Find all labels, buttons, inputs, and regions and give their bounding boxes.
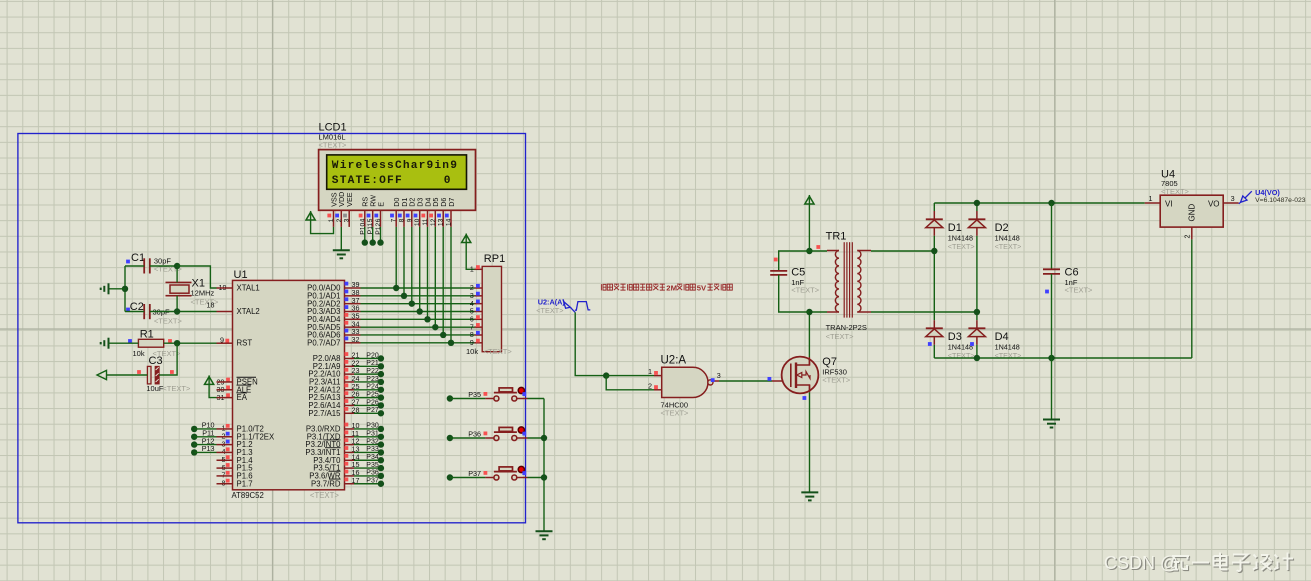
voltage probe U4(VO)	[1239, 191, 1252, 204]
logic square pin 32	[345, 337, 349, 341]
wire power to EA	[209, 384, 216, 398]
wire button ground bus	[543, 399, 545, 532]
wire net P33	[354, 451, 381, 453]
wire end dot net P31	[378, 434, 384, 440]
D4 cathode pin stub	[976, 320, 978, 328]
svg-text:9: 9	[470, 340, 474, 347]
D3 value 1N4148	[948, 342, 973, 351]
wire P0.5 row to RP1	[361, 326, 475, 328]
U1 pin name P1.7	[237, 479, 253, 488]
U1 pin name RST	[237, 338, 253, 347]
net label P11 at LCD pin 5	[367, 222, 374, 234]
LCD pin logic state square E	[374, 214, 378, 218]
wire end dot net P12	[191, 441, 197, 447]
pin stub P1.0	[217, 428, 233, 430]
U1 reference label	[234, 269, 248, 281]
U4 value 7805	[1161, 179, 1178, 188]
logic square pin 30	[226, 385, 230, 389]
logic square pin 14	[345, 454, 349, 458]
pin stub P2.4	[345, 389, 355, 391]
power terminal above RP1	[462, 234, 471, 243]
U1 pin name P1.2	[237, 440, 253, 449]
pin stub P0.3	[345, 310, 361, 312]
U1 pin name P2.5/A13	[308, 393, 340, 402]
LCD pin stub RW	[372, 210, 374, 227]
LCD pin stub D7	[450, 210, 452, 227]
pin stub P3.6	[345, 475, 355, 477]
diode D2 1N4148	[968, 219, 985, 227]
logic square pin 1	[226, 424, 230, 428]
wire C5 bottom	[779, 275, 810, 312]
crystal X1	[166, 282, 192, 295]
junction P37/bus	[541, 474, 547, 480]
svg-text:10: 10	[414, 218, 421, 226]
logic square pin 25	[345, 383, 349, 387]
pin stub P0.2	[345, 303, 361, 305]
wire P0.2 row to RP1	[361, 303, 475, 305]
logic square at P36	[484, 432, 488, 436]
D2 cathode pin stub	[976, 211, 978, 219]
LCD pin logic state square RS	[359, 214, 363, 218]
svg-text:<TEXT>: <TEXT>	[162, 384, 191, 393]
svg-text:3: 3	[344, 218, 351, 222]
D2 reference label	[995, 222, 1009, 234]
logic square pin 11	[345, 430, 349, 434]
LCD pin name D5	[431, 198, 440, 207]
svg-text:9: 9	[406, 218, 413, 222]
pin number 19 XTAL1	[219, 283, 227, 292]
pin number 4	[222, 447, 226, 456]
wire net P36	[354, 475, 381, 477]
LCD pin number 11	[422, 218, 429, 225]
RP1 pin number 3	[470, 293, 474, 300]
wire power to RP1 pin1	[466, 242, 474, 269]
pin number 3	[222, 439, 226, 448]
P36 right pin stub	[517, 437, 528, 439]
pin number 30	[217, 385, 225, 394]
wire end dot net P34	[378, 457, 384, 463]
U1 pin name P1.1/T2EX	[237, 432, 276, 441]
wire C5 top	[779, 251, 810, 271]
pin number 35	[352, 311, 360, 320]
wire net P24	[354, 389, 381, 391]
LCD pin name D7	[447, 198, 456, 207]
LCD pin logic state square VSS	[327, 214, 331, 218]
pin number 39	[352, 280, 360, 289]
LCD pin logic state square VDD	[335, 214, 339, 218]
LCD pin logic state square D4	[421, 214, 425, 218]
svg-text:1N4148: 1N4148	[948, 342, 973, 351]
svg-text:10k: 10k	[133, 349, 145, 358]
svg-text:3: 3	[717, 371, 721, 380]
wire LCD D4 down to P0.4	[427, 227, 429, 319]
svg-text:WirelessChar9in9: WirelessChar9in9	[332, 160, 458, 172]
D2 property text	[995, 242, 1022, 251]
logic square pin 33	[345, 329, 349, 333]
wire TR1 primary to Q7 drain	[808, 312, 810, 357]
wire D2 anode / AC2 column	[976, 236, 978, 320]
wire TR1 secondary top to bridge	[871, 250, 934, 252]
pin stub P1.2	[217, 444, 233, 446]
LCD pin number 13	[438, 218, 445, 226]
RP1 logic square pin 9	[476, 339, 480, 343]
net label P35	[468, 390, 481, 399]
wire LCD D6 down to P0.6	[442, 227, 444, 335]
LCD pin stub VEE	[348, 210, 350, 227]
wire end dot net P30	[378, 426, 384, 432]
logic square pin 10	[345, 423, 349, 427]
NAND gate U2:A body 74HC00	[662, 367, 713, 397]
wire R1 to RST	[164, 342, 217, 344]
svg-text:11: 11	[422, 218, 429, 225]
push button P36	[494, 427, 525, 441]
transformer TR1 TRAN-2P2S	[835, 242, 861, 317]
logic square pin 2	[226, 432, 230, 436]
svg-text:<TEXT>: <TEXT>	[948, 242, 975, 251]
LCD pin name D0	[392, 198, 401, 207]
U1 pin name P2.4/A12	[308, 385, 340, 394]
wire P0.4 row to RP1	[361, 318, 475, 320]
capacitor C2	[144, 304, 150, 319]
LCD pin stub D5	[434, 210, 436, 227]
U4 pin stub VO	[1223, 202, 1239, 204]
wire LCD P12 stub down	[380, 227, 382, 243]
net label P10	[202, 421, 215, 430]
P35 left pin stub	[485, 398, 494, 400]
C5 reference label	[791, 267, 805, 279]
wire P0.0 row to RP1	[361, 287, 475, 289]
D1 reference label	[948, 222, 962, 234]
U2:A value 74HC00	[661, 401, 689, 410]
U1 pin name P1.3	[237, 448, 253, 457]
net label P33	[366, 446, 379, 453]
wire end dot net P21	[378, 363, 384, 369]
resistor R1 body	[138, 339, 163, 347]
wire left column C1-C2	[124, 266, 126, 312]
pin stub P0.1	[345, 295, 361, 297]
net label P23	[366, 376, 379, 383]
logic square pin 6	[226, 463, 230, 467]
wire TR1 secondary bottom to bridge	[871, 311, 977, 313]
wire end dot net P35	[378, 465, 384, 471]
wire end dot net P25	[378, 394, 384, 400]
RP1 logic square pin 1	[476, 265, 480, 269]
pin number 2	[222, 432, 226, 441]
TR1 value TRAN-2P2S	[826, 323, 867, 332]
svg-text:U4(VO): U4(VO)	[1255, 188, 1280, 197]
C5 value 1nF	[791, 278, 804, 287]
RP1 pin stub 1	[475, 268, 483, 270]
pin number 14	[352, 452, 360, 461]
C6 reference label	[1065, 267, 1079, 279]
svg-text:3: 3	[470, 293, 474, 300]
wire P0.7 row to RP1	[361, 342, 475, 344]
pin stub 31	[217, 397, 233, 399]
pin stub P1.6	[217, 475, 233, 477]
C2 value 30pF	[153, 308, 171, 317]
U1 pin name P3.3/INT1	[305, 448, 340, 457]
U1 pin name P0.1/AD1	[307, 291, 340, 300]
wire P35 right to bus	[528, 398, 545, 400]
svg-text:P13: P13	[202, 444, 215, 453]
logic square at Q7 gate	[768, 377, 772, 381]
LCD pin logic state square D7	[445, 214, 449, 218]
LCD1 screen	[327, 155, 467, 189]
wire LCD D7 down to P0.7	[450, 227, 452, 343]
svg-text:VI: VI	[1165, 200, 1173, 209]
LCD pin number 12	[430, 218, 437, 226]
TR1 reference label	[826, 231, 847, 243]
power terminal above LCD VSS	[306, 211, 315, 220]
net label P36	[366, 470, 379, 477]
svg-text:8: 8	[470, 332, 474, 339]
logic square pin 8	[226, 479, 230, 483]
ground below Q7	[801, 492, 818, 500]
wire net P23	[354, 381, 381, 383]
wire net P25	[354, 397, 381, 399]
C3 right logic square	[170, 370, 174, 374]
push button P35	[494, 387, 525, 401]
svg-text:GND: GND	[1188, 204, 1197, 222]
logic square C5 top	[774, 258, 778, 262]
capacitor C1	[144, 258, 150, 273]
pin stub P3.1	[345, 436, 355, 438]
pin number 5	[222, 455, 226, 464]
RP1 logic square pin 7	[476, 323, 480, 327]
pin stub P3.0	[345, 428, 355, 430]
R1 property text	[153, 349, 182, 358]
pin number 29	[217, 377, 225, 386]
wire end dot P35	[447, 395, 453, 401]
svg-text:5: 5	[367, 218, 374, 222]
annotation 5V	[697, 283, 707, 292]
P37 left pin stub	[485, 477, 494, 479]
logic square pin 34	[345, 321, 349, 325]
U1 value label AT89C52	[232, 491, 264, 500]
pin number 13	[352, 445, 360, 454]
wire C1 left	[125, 265, 144, 267]
Q7 value IRF530	[822, 368, 847, 377]
LCD1 reference label	[319, 122, 347, 134]
wire end dot net P24	[378, 387, 384, 393]
wire P0.6 row to RP1	[361, 334, 475, 336]
svg-text:18: 18	[207, 301, 215, 310]
pin number 16	[352, 468, 360, 477]
svg-text:STATE:OFF: STATE:OFF	[332, 175, 403, 187]
wire U2:A output to Q7 gate	[719, 380, 772, 382]
logic square D4	[970, 342, 974, 346]
U4 pin number 3	[1231, 194, 1235, 203]
svg-text:<TEXT>: <TEXT>	[484, 347, 513, 356]
wire LCD D2 down to P0.2	[411, 227, 413, 304]
diode D3 1N4148	[926, 328, 943, 336]
U4 pin number 2	[1183, 235, 1192, 239]
logic square pin 21	[345, 352, 349, 356]
svg-text:2M: 2M	[666, 283, 677, 292]
junction D2/P0.2	[409, 300, 415, 306]
wire P37 right to bus	[528, 477, 545, 479]
net label P13	[202, 444, 215, 453]
wire LCD P10 stub down	[364, 227, 366, 243]
logic square pin 37	[345, 297, 349, 301]
RP1 pin number 5	[470, 309, 474, 316]
C1 logic square	[126, 260, 130, 264]
RP1 pin stub 5	[475, 310, 483, 312]
pin stub P3.5	[345, 467, 355, 469]
U2:A input stub 2	[654, 389, 662, 391]
wire X1 node to XTAL1	[177, 266, 216, 288]
svg-text:10k: 10k	[466, 347, 478, 356]
RP1 value 10k	[466, 347, 478, 356]
pin stub P2.7	[345, 412, 355, 414]
LCD pin stub VDD	[340, 210, 342, 227]
junction D1/P0.1	[401, 293, 407, 299]
logic square U2:A pin 2	[654, 385, 658, 389]
LCD pin number 5	[367, 218, 374, 222]
LCD pin stub VSS	[333, 210, 335, 227]
RP1 logic square pin 8	[476, 331, 480, 335]
svg-text:D3: D3	[948, 331, 962, 343]
LCD pin name E	[376, 202, 385, 207]
svg-text:2: 2	[1183, 235, 1192, 239]
svg-text:6: 6	[375, 218, 382, 222]
LCD pin logic state square VEE	[343, 214, 347, 218]
LCD pin number 8	[399, 218, 406, 222]
RP1 pin stub 6	[475, 318, 483, 320]
LCD pin number 4	[359, 218, 366, 222]
ground (rotated) left of crystal	[101, 283, 109, 294]
RP1 reference label	[484, 253, 505, 265]
pin number 22	[352, 358, 360, 367]
U1 pin name XTAL1	[237, 284, 260, 293]
wire U4 GND to bottom rail	[1191, 239, 1193, 358]
wire end dot net P37	[378, 481, 384, 487]
LCD1 property text	[319, 141, 348, 150]
svg-text:1N4148: 1N4148	[995, 233, 1020, 242]
LCD pin number 14	[446, 218, 453, 226]
RP1 pin stub 4	[475, 303, 483, 305]
R1 right logic square	[168, 339, 172, 343]
logic square pin 31	[226, 393, 230, 397]
pin number 9 RST	[220, 336, 224, 345]
logic square pin 7	[226, 471, 230, 475]
svg-text:<TEXT>: <TEXT>	[826, 332, 855, 341]
U2:A pin number 1	[648, 367, 652, 376]
U1 pin name P2.1/A9	[313, 362, 341, 371]
pin number 27	[352, 398, 360, 407]
LCD text row 2	[332, 175, 403, 187]
RP1 pin stub 7	[475, 326, 483, 328]
U1 property text	[310, 491, 339, 500]
wire LCD P11 stub down	[372, 227, 374, 243]
junction TR1/C5 bottom	[806, 309, 812, 315]
net label P37	[366, 478, 379, 485]
svg-text:8: 8	[399, 218, 406, 222]
logic square pin 5	[226, 455, 230, 459]
net label P21	[366, 360, 379, 367]
pin stub XTAL1	[217, 287, 233, 289]
U1 AT89C52 body	[233, 280, 345, 489]
logic square pin 28	[345, 407, 349, 411]
junction ground/bottom rail	[1048, 355, 1054, 361]
wire net P34	[354, 459, 381, 461]
wire net P26	[354, 404, 381, 406]
diode D4 1N4148	[968, 328, 985, 336]
wire LCD pin2 to ground	[340, 227, 342, 250]
LCD pin stub D6	[442, 210, 444, 227]
pin stub P3.7	[345, 483, 355, 485]
wire net P30	[354, 428, 381, 430]
wire C2/XTAL2 row	[150, 311, 217, 313]
wire P12 to U1	[194, 444, 216, 446]
C2 reference label	[130, 301, 144, 313]
D2 anode pin stub	[976, 228, 978, 236]
svg-text:<TEXT>: <TEXT>	[536, 306, 563, 315]
wire C3 to RST node	[159, 343, 177, 375]
pin stub P0.6	[345, 334, 361, 336]
svg-text:<TEXT>: <TEXT>	[154, 317, 183, 326]
U1 pin name P0.6/AD6	[307, 331, 340, 340]
wire C1 right to X1 node	[150, 265, 177, 267]
svg-text:1N4148: 1N4148	[995, 342, 1020, 351]
RP1 property text	[484, 347, 513, 356]
svg-text:7: 7	[470, 324, 474, 331]
LCD pin number 10	[414, 218, 421, 226]
pin number 10	[352, 421, 360, 430]
LCD1 body	[319, 150, 476, 211]
RP1 pin number 8	[470, 332, 474, 339]
svg-text:3: 3	[1231, 194, 1235, 203]
logic square pin 3	[226, 440, 230, 444]
svg-text:<TEXT>: <TEXT>	[191, 298, 220, 307]
svg-text:4: 4	[359, 218, 366, 222]
wire C6 top	[1051, 203, 1053, 269]
net label P24	[366, 384, 379, 391]
wire X1 bottom	[176, 296, 178, 312]
pin stub XTAL2	[217, 311, 233, 313]
U1 pin name P3.6/WR	[309, 472, 341, 481]
pin stub P2.5	[345, 397, 355, 399]
wire P36 left	[450, 437, 486, 439]
logic square at Q7 source	[803, 396, 807, 400]
overline for P3.7/RD	[329, 478, 341, 480]
logic square right of P37	[522, 471, 526, 475]
pin number 37	[352, 296, 360, 305]
wire bottom rail to ground	[1051, 358, 1053, 420]
RP1 logic square pin 5	[476, 307, 480, 311]
power terminal at EA	[205, 375, 214, 384]
svg-text:<TEXT>: <TEXT>	[319, 141, 348, 150]
wire end dot net P10	[191, 426, 197, 432]
net label P36	[468, 430, 481, 439]
U1 pin name XTAL2	[237, 307, 260, 316]
junction D2/top rail	[974, 200, 980, 206]
wire end dot net P36	[378, 473, 384, 479]
logic square pin 16	[345, 470, 349, 474]
wire C6 bottom	[1051, 274, 1053, 358]
pin number 24	[352, 374, 360, 383]
U1 pin name P1.4	[237, 456, 254, 465]
wire P13 to U1	[194, 451, 216, 453]
wire end dot net P26	[378, 402, 384, 408]
logic square pin 22	[345, 360, 349, 364]
svg-text:P3.7/RD: P3.7/RD	[311, 479, 341, 488]
probe label U4(VO)	[1255, 188, 1280, 197]
RP1 logic square pin 3	[476, 292, 480, 296]
LCD pin number 1	[328, 218, 335, 222]
LCD text row 1	[332, 160, 458, 172]
D1 value 1N4148	[948, 233, 973, 242]
